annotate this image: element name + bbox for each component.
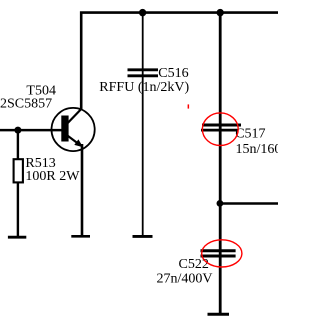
label 27n/400V <box>157 271 213 286</box>
label 15n/160V <box>236 142 292 157</box>
capacitor C516 plates <box>128 70 159 76</box>
label RFFU (1n/2kV) <box>99 80 189 95</box>
svg-text:C517: C517 <box>235 126 265 141</box>
svg-text:100R 2W: 100R 2W <box>25 169 80 184</box>
wire emitter vertical <box>81 144 84 237</box>
red annotation dash <box>188 104 190 108</box>
node junction dot top C516 tap <box>139 9 146 16</box>
wire C516 branch vertical <box>142 13 144 237</box>
svg-text:C516: C516 <box>158 66 188 81</box>
terminal bar under C522 <box>208 313 230 316</box>
svg-text:RFFU (1n/2kV): RFFU (1n/2kV) <box>99 80 189 95</box>
resistor R513 100R 2W <box>14 159 23 182</box>
wire right output horizontal <box>219 202 278 205</box>
label R513 <box>25 156 55 171</box>
node junction dot base/R513 tap <box>14 127 21 134</box>
svg-text:27n/400V: 27n/400V <box>157 271 213 286</box>
label C516 <box>158 66 188 81</box>
label C522 <box>179 257 209 272</box>
terminal bar under R513 <box>8 236 26 239</box>
transistor T504 2SC5857 <box>52 108 95 151</box>
wire R513 branch vertical <box>17 130 19 237</box>
svg-text:2SC5857: 2SC5857 <box>0 97 52 112</box>
node junction dot output tap <box>217 200 224 207</box>
capacitor C517 plates <box>201 125 241 130</box>
svg-text:15n/160V: 15n/160V <box>236 142 279 157</box>
red highlight ellipse around C517 <box>202 113 238 146</box>
terminal bar under emitter <box>71 235 90 238</box>
red highlight ellipse around C522 <box>202 240 242 267</box>
label 100R 2W <box>25 169 80 184</box>
label T504 <box>26 83 56 98</box>
label C517 <box>235 126 265 141</box>
capacitor C522 plates <box>201 251 236 256</box>
wire top rail and collector drop <box>81 13 278 110</box>
wire base horizontal <box>0 129 62 132</box>
node junction dot top C517 tap <box>217 9 224 16</box>
wire C517/C522 branch vertical <box>219 11 222 314</box>
terminal bar under C516 <box>133 235 153 238</box>
label 2SC5857 <box>0 97 52 112</box>
